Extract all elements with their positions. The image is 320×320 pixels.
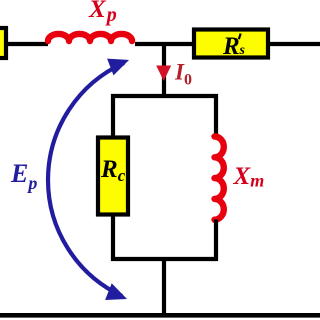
wire: top-middle segment <box>135 42 194 46</box>
wire: parallel branch bottom rail <box>111 257 218 261</box>
svg-text:Ep: Ep <box>10 159 37 193</box>
svg-text:Xm: Xm <box>233 163 265 191</box>
resistor R's <box>194 30 268 58</box>
svg-text:Xp: Xp <box>88 0 117 26</box>
wire: parallel branch top rail <box>111 94 218 98</box>
wire: vertical drop from node to parallel branch <box>162 44 166 98</box>
current arrow I0 <box>156 66 171 82</box>
terminal box (left, partially visible) <box>0 28 6 58</box>
inductor X_m <box>215 137 224 220</box>
svg-text:s: s <box>239 43 246 58</box>
inductor X_p <box>48 34 132 41</box>
wire: right rail lower segment <box>214 220 218 262</box>
svg-text:R: R <box>222 33 240 60</box>
wire: top-right segment <box>268 42 320 46</box>
svg-text:I0: I0 <box>174 60 192 89</box>
arrow E_p (blue double-headed arc) <box>48 59 129 300</box>
wire: bottom bus <box>0 313 320 318</box>
wire: left rail <box>111 94 115 261</box>
resistor Rc <box>98 138 128 215</box>
wire: right rail upper segment <box>214 94 218 137</box>
wire: bottom center drop <box>162 259 166 316</box>
wire: top-left segment <box>0 42 48 46</box>
